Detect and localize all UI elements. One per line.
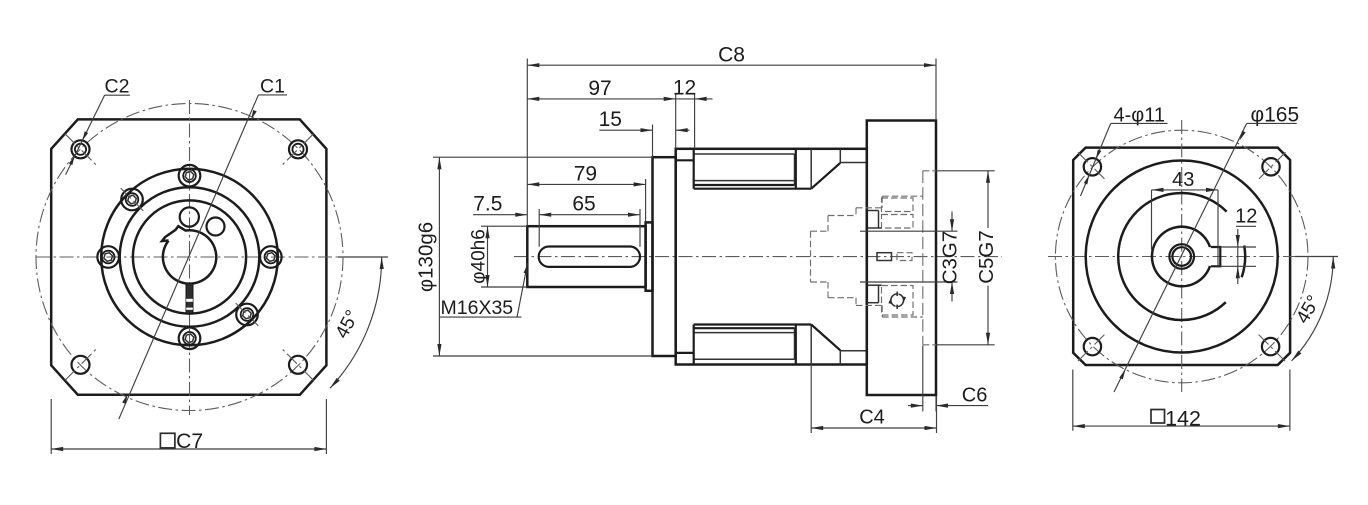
left view bottom-right corner mounting hole [283, 349, 314, 380]
left view socket head bolt at lower-right (315 deg) on bolt circle [236, 303, 259, 326]
left view drive pin hole upper (on vertical centerline) [180, 207, 199, 226]
hidden motor-coupling cavity steps (dashed) [811, 196, 923, 317]
dimension phi40h6 vertical [469, 226, 528, 287]
right view 45 degree angular dimension arc [1292, 257, 1336, 361]
leader line C2 through corner hole with arrows [66, 95, 105, 175]
left view bolt-circle (dash-dot) through corner holes, r=153.5 [36, 104, 343, 411]
label M16X35 tapped hole with leader [440, 264, 528, 319]
svg-text:142: 142 [1165, 407, 1201, 431]
dimension 43 bore plus keyway [1152, 169, 1219, 266]
body front ring groove lines bottom [676, 325, 812, 365]
hidden motor shaft end pieces on axis [877, 253, 912, 261]
right view top-left corner hole phi11 [1078, 152, 1107, 181]
left view socket head bolt at bottom (270 deg) on bolt circle [179, 328, 201, 350]
shaft shoulder step [646, 222, 653, 290]
dimension C8 overall length [527, 44, 936, 227]
svg-text:C1: C1 [260, 76, 285, 98]
dimension C5G7 pilot recess [936, 171, 998, 345]
left view socket head bolt at upper-left (135 deg) on bolt circle [121, 188, 144, 211]
svg-text:C5G7: C5G7 [975, 230, 998, 284]
left view drive pin hole upper-right [207, 218, 225, 236]
svg-text:65: 65 [572, 193, 595, 216]
hidden clamp screw upper (dashed boxes) [867, 198, 913, 228]
left view 45 degree angular dimension arc [330, 257, 384, 388]
dimension 79 shaft length [527, 163, 645, 223]
svg-text:C6: C6 [962, 385, 988, 407]
output shaft phi40h6 outline [527, 226, 645, 287]
leader line C1 diagonal with arrows at plate edges [119, 95, 259, 420]
right view: square motor flange plate with chamfered corners [1073, 148, 1290, 365]
gearbox body outline phi142 [676, 149, 867, 365]
adapter chamfer top [811, 149, 867, 189]
adapter chamfer bottom [811, 325, 867, 365]
dimension 15 boss depth [599, 108, 690, 157]
svg-text:C7: C7 [176, 430, 203, 453]
left view center bore with clamp-notch (gap 100..142 deg) [162, 226, 216, 283]
right view bolt circle phi165 (dash-dot) [1055, 130, 1308, 383]
svg-text:43: 43 [1172, 169, 1194, 191]
label phi165 with diagonal diameter line [1114, 104, 1299, 393]
svg-text:C8: C8 [718, 44, 745, 67]
label 4-phi11 with leader through corner hole [1081, 105, 1168, 197]
svg-text:97: 97 [588, 77, 611, 100]
dimension square142 flange width [1073, 370, 1290, 431]
label C2 hole chamfer callout [105, 76, 130, 98]
left view inner ring circle r=69.8 [120, 187, 260, 327]
right view top-right corner hole phi11 [1257, 152, 1286, 181]
pilot boss phi130g6 [653, 157, 676, 356]
svg-text:C2: C2 [105, 76, 130, 98]
dimension C6 recess depth [908, 346, 988, 412]
left view socket head bolt at right (0 deg) on bolt circle [260, 246, 282, 268]
dimension 12 keyway width (right view) [1220, 206, 1257, 285]
dimension 12 front plate thickness [673, 77, 713, 149]
dimension phi130g6 vertical [415, 157, 653, 356]
right view bottom-left corner hole phi11 [1078, 332, 1107, 361]
right view body circle r=96 [1086, 161, 1278, 353]
left view socket head bolt at left (180 deg) on bolt circle [97, 246, 119, 268]
right view horizontal centerline [1048, 256, 1338, 258]
dimension C3G7 coupling bore [860, 212, 962, 302]
left view socket head bolt at top (90 deg) on bolt circle [179, 165, 201, 187]
shaft keyway (stadium) 65 long [539, 247, 640, 267]
svg-text:C4: C4 [859, 407, 885, 429]
svg-text:12: 12 [1235, 206, 1257, 228]
right view vertical centerline [1181, 120, 1183, 392]
right view keyway slot rectangle [1211, 247, 1221, 266]
svg-text:φ40h6: φ40h6 [469, 229, 490, 284]
dimension 97 [527, 77, 675, 149]
left view outer ring circle r=88.3 [101, 169, 278, 346]
left view top-right corner mounting hole [283, 134, 314, 165]
left view: square output-flange plate outline with chamfered corners [51, 119, 326, 394]
left view keyway slot below bore with dark slit [186, 284, 193, 314]
svg-text:79: 79 [574, 163, 597, 186]
body front ring groove lines top [676, 149, 812, 189]
right view inner shaft circles [1169, 244, 1194, 269]
dimension 7.5 and 65 keyway [473, 193, 640, 247]
left view hub circle r=56.6 [133, 200, 246, 313]
svg-text:C3G7: C3G7 [939, 231, 962, 285]
svg-text:φ130g6: φ130g6 [415, 222, 438, 292]
label C1 chamfer callout [259, 76, 288, 98]
input flange plate outline [867, 121, 936, 396]
left view top-left corner mounting hole [65, 134, 96, 165]
hidden motor pilot recess C5G7 (long dashed) [923, 171, 936, 345]
svg-text:12: 12 [673, 77, 696, 100]
left view vertical centerline [189, 100, 191, 415]
svg-text:7.5: 7.5 [473, 193, 502, 216]
svg-text:15: 15 [599, 108, 622, 131]
svg-text:M16X35: M16X35 [441, 297, 514, 319]
dimension squareC7 across flange bottom [51, 399, 326, 454]
right view coupling bore circle r=29.8 with keyway gap [1152, 227, 1210, 287]
dimension C4 adapter length [811, 330, 936, 433]
right view motor pilot circle broken r=63.5 [1118, 193, 1245, 320]
middle view horizontal centerline (shaft axis) [514, 256, 1002, 258]
left view bottom-left corner mounting hole [65, 349, 96, 380]
right view bottom-right corner hole phi11 [1256, 332, 1285, 361]
left view horizontal centerline [36, 256, 388, 258]
hidden clamp screw lower (dashed box with rotation arrows) [867, 285, 913, 315]
